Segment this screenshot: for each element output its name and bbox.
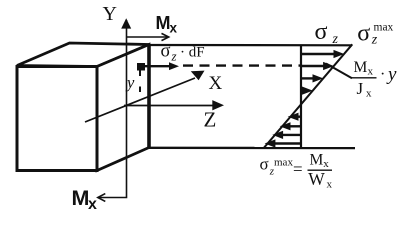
dashed y1 dimension line <box>139 71 141 95</box>
sigma_z dF element square <box>137 63 145 71</box>
fraction bar Mx/Wx <box>308 169 333 171</box>
left stress arrow 4 <box>273 142 301 144</box>
svg-text:max: max <box>274 157 293 169</box>
bottom Mx arrowhead (open) <box>98 194 106 202</box>
Y axis arrowhead <box>121 18 131 28</box>
beam bottom line <box>149 147 355 150</box>
fraction bar Mx/Jx <box>352 77 377 79</box>
svg-text:X: X <box>209 73 223 94</box>
right stress arrow 4 <box>301 89 305 91</box>
svg-text:x: x <box>366 87 372 99</box>
right stress arrow 2 <box>301 65 326 67</box>
svg-text:M: M <box>354 59 368 76</box>
svg-text:y: y <box>386 64 397 85</box>
dashed line to stress diagram <box>183 64 301 66</box>
svg-text:x: x <box>88 196 97 213</box>
svg-text:max: max <box>374 22 394 34</box>
svg-text:σ: σ <box>161 42 171 62</box>
box front face <box>17 67 97 171</box>
box top face <box>17 43 149 67</box>
svg-text:x: x <box>327 178 333 190</box>
svg-text:x: x <box>170 21 178 36</box>
top Mx arrow <box>127 36 167 38</box>
svg-text:W: W <box>308 169 325 189</box>
svg-text:Z: Z <box>204 108 217 132</box>
sigma_z dF solid arrow <box>141 65 171 67</box>
svg-text:z: z <box>371 33 378 48</box>
svg-text:·: · <box>380 66 385 83</box>
beam top line <box>149 44 352 46</box>
svg-text:z: z <box>171 49 177 64</box>
svg-text:σ: σ <box>260 154 269 173</box>
box right face <box>97 45 149 171</box>
right stress arrow 3 <box>301 77 315 79</box>
svg-text:σ: σ <box>357 20 370 46</box>
left stress arrow 1 <box>296 115 301 117</box>
right stress arrow 1 <box>301 53 336 55</box>
Z axis line <box>124 105 214 107</box>
svg-text:σ: σ <box>315 19 328 45</box>
svg-text:M: M <box>156 13 171 33</box>
box back-right edge (thicker) <box>147 45 151 148</box>
leader line to Mx/Jx fraction <box>326 64 352 79</box>
svg-text:M: M <box>310 151 324 168</box>
svg-text:=: = <box>293 159 303 178</box>
svg-text:J: J <box>357 79 364 98</box>
left stress arrow 2 <box>288 125 301 127</box>
Z axis arrowhead <box>212 100 224 110</box>
X axis arrowhead <box>191 71 205 81</box>
svg-text:· dF: · dF <box>180 45 205 61</box>
svg-text:x: x <box>368 66 374 78</box>
svg-text:M: M <box>72 186 90 210</box>
stress envelope diagonal <box>264 44 353 148</box>
X axis line <box>85 78 195 122</box>
svg-text:y: y <box>125 73 135 92</box>
svg-text:z: z <box>332 32 339 47</box>
left stress arrow 3 <box>281 134 301 136</box>
stress diagram baseline <box>300 45 302 148</box>
Y axis line with bottom Mx elbow <box>99 20 127 198</box>
svg-text:Y: Y <box>103 3 117 25</box>
